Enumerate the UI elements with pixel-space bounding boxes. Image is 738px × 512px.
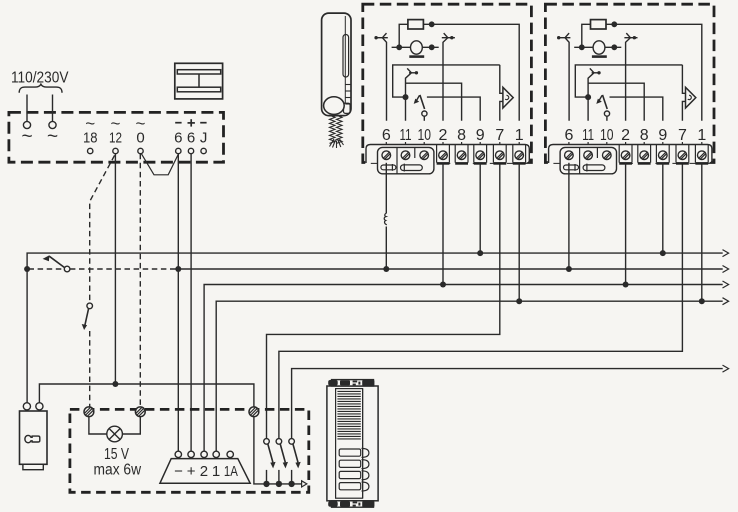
wire PSU 12 dashed diagonal and vertical (to lamp switch) bbox=[90, 155, 115, 303]
polarity marks - + - above 6 6 J bbox=[175, 119, 206, 126]
resistor bbox=[399, 24, 408, 47]
panel bottom cap screws bbox=[328, 501, 374, 507]
junction dot PSU6a on bus 2 bbox=[175, 266, 181, 272]
terminal ~ right bbox=[49, 121, 56, 128]
door entry panel bbox=[327, 380, 378, 508]
arrow push button common bbox=[302, 481, 307, 487]
screw cells t2 t8 t9 t7 t1 bbox=[619, 145, 708, 163]
amplifier triangle and terminal 7 wire bbox=[500, 65, 503, 93]
push button 1 bbox=[263, 439, 275, 487]
arrow bus 5 bbox=[723, 365, 729, 372]
wire PSU 6a down to door speaker minus bbox=[177, 154, 179, 451]
svg-text:2: 2 bbox=[200, 463, 208, 480]
buzzer bbox=[411, 41, 423, 54]
arrow bus 1 bbox=[723, 250, 729, 257]
bus line 5 (push button 3 spare, arrow right) bbox=[292, 369, 723, 439]
screw cells t2 t8 t9 t7 t1 bbox=[437, 145, 526, 163]
bus line 4 (left bend down to door speaker 1) bbox=[216, 301, 723, 451]
door station box bbox=[70, 409, 309, 492]
svg-text:J: J bbox=[200, 129, 208, 146]
wire resistor to terminal 1 bbox=[606, 24, 702, 121]
svg-text:2: 2 bbox=[439, 127, 448, 144]
arrow bus 2 bbox=[723, 266, 729, 273]
door speaker unit trapezoid bbox=[160, 459, 250, 484]
svg-text:9: 9 bbox=[658, 127, 667, 144]
wire unit1 t1 to bus4 bbox=[518, 163, 520, 301]
wire PSU 6b down to door speaker plus bbox=[190, 154, 192, 451]
wire switch to terminal 9 bbox=[610, 97, 663, 121]
junction dot terminal 11 net bbox=[403, 94, 409, 100]
svg-text:6: 6 bbox=[564, 127, 573, 144]
connector arrow at terminal 11 bbox=[588, 68, 600, 120]
intercom unit 1 bbox=[363, 4, 532, 174]
svg-text:8: 8 bbox=[457, 127, 466, 144]
svg-text:12: 12 bbox=[109, 129, 122, 146]
handset coiled cord bbox=[330, 116, 344, 148]
intercom unit 2 bbox=[545, 4, 714, 174]
lamp wires bbox=[89, 417, 107, 434]
door speaker terminals bbox=[175, 451, 233, 457]
hook switch bbox=[603, 95, 608, 109]
wire unit2 t1 to bus4 bbox=[701, 163, 703, 301]
bus line 2 solid segment bbox=[178, 268, 723, 270]
svg-text:1: 1 bbox=[515, 127, 524, 144]
screws bbox=[382, 151, 524, 160]
jumper block over t6 t11 t10 bbox=[560, 147, 616, 173]
junction dot at resistor output bbox=[429, 21, 435, 27]
unit box 2 bbox=[545, 4, 714, 162]
power supply box PSU bbox=[9, 112, 224, 162]
wire unit1 t6 to bus2 (with slack mark) bbox=[385, 163, 387, 213]
svg-text:max 6w: max 6w bbox=[94, 462, 142, 479]
svg-text:6: 6 bbox=[187, 129, 195, 146]
switch on dashed lamp wire bbox=[87, 303, 93, 309]
screws bbox=[565, 151, 707, 160]
connector arrow at terminal 6 bbox=[376, 33, 388, 121]
wire to terminal 8 bbox=[588, 83, 644, 121]
bus line 3 (left bend down to door speaker 2) bbox=[204, 285, 723, 452]
transformer icon bbox=[175, 63, 223, 99]
wire unit2 t9 to bus1 bbox=[662, 163, 664, 253]
wire switch to terminal 9 bbox=[427, 97, 480, 121]
wire unit2 t6 to bus2 bbox=[568, 163, 570, 269]
wire mains N bbox=[52, 95, 54, 122]
lamp 15V bbox=[107, 426, 123, 442]
resistor bbox=[582, 24, 591, 47]
wire unit1 terminal7 to push button 1 bbox=[267, 163, 500, 439]
svg-text:6: 6 bbox=[382, 127, 391, 144]
terminal number labels bbox=[564, 127, 706, 144]
svg-text:110/230V: 110/230V bbox=[11, 70, 69, 87]
jumper block over t6 t11 t10 bbox=[378, 147, 434, 173]
jumper wire 0 to 6a bbox=[141, 153, 178, 174]
svg-text:11: 11 bbox=[582, 127, 594, 144]
door lock release bbox=[20, 403, 48, 470]
wire resistor to terminal 1 bbox=[423, 24, 519, 121]
svg-text:0: 0 bbox=[136, 129, 144, 146]
junction dot terminal 11 net bbox=[585, 94, 591, 100]
brace under 110/230V bbox=[19, 84, 62, 93]
svg-text:15 V: 15 V bbox=[104, 446, 130, 463]
terminal strip bbox=[366, 145, 529, 163]
panel top cap screws bbox=[328, 380, 374, 386]
svg-text:+: + bbox=[187, 463, 196, 480]
terminal number labels bbox=[382, 127, 524, 144]
svg-text:1: 1 bbox=[697, 127, 706, 144]
wire to terminal 8 bbox=[406, 83, 462, 121]
wire mains L bbox=[26, 95, 28, 122]
unit box bbox=[363, 4, 532, 162]
connector arrow at terminal 2 bbox=[442, 33, 455, 121]
hook switch bbox=[420, 95, 425, 109]
terminal stubs bbox=[569, 142, 702, 149]
svg-text:10: 10 bbox=[600, 127, 614, 144]
terminal ~ left bbox=[23, 121, 30, 128]
wire unit2 t2 to bus3 bbox=[625, 163, 627, 285]
svg-text:9: 9 bbox=[476, 127, 485, 144]
buzzer bbox=[593, 41, 605, 54]
jumper links bbox=[381, 165, 396, 170]
dark cell bases bbox=[437, 162, 526, 165]
connector arrow at terminal 11 bbox=[406, 68, 418, 120]
connector arrow at terminal 2 bbox=[624, 33, 637, 121]
svg-text:7: 7 bbox=[495, 127, 504, 144]
svg-text:−: − bbox=[174, 463, 183, 480]
switch on bus 2 bbox=[64, 266, 70, 272]
bus line 1 (with left bend down to lock) bbox=[27, 253, 723, 403]
internal net wire bbox=[575, 65, 682, 97]
push button 3 bbox=[288, 439, 300, 487]
svg-text:11: 11 bbox=[400, 127, 412, 144]
panel call buttons bbox=[339, 448, 369, 491]
svg-text:2: 2 bbox=[621, 127, 630, 144]
bus line 2 dashed left segment bbox=[29, 268, 65, 270]
jumper links bbox=[564, 165, 579, 170]
terminal strip bbox=[549, 145, 712, 163]
amplifier triangle and terminal 7 wire bbox=[682, 65, 685, 93]
panel speaker grille bbox=[337, 391, 360, 439]
wire unit1 t9 to bus1 bbox=[479, 163, 481, 253]
arrow bus 4 bbox=[723, 298, 729, 305]
junction dot PSU12 wire on lock line bbox=[112, 381, 118, 387]
dark cell bases bbox=[619, 162, 708, 165]
junction dot at resistor output bbox=[611, 21, 617, 27]
svg-text:~: ~ bbox=[47, 127, 58, 148]
svg-text:7: 7 bbox=[678, 127, 687, 144]
svg-text:~: ~ bbox=[21, 127, 32, 148]
svg-text:6: 6 bbox=[174, 129, 182, 146]
svg-text:10: 10 bbox=[417, 127, 431, 144]
terminal stubs bbox=[386, 142, 519, 149]
push button 2 bbox=[276, 439, 288, 487]
wire unit2 terminal7 to push button 2 bbox=[279, 163, 683, 439]
wire PSU 12 solid down bbox=[114, 154, 116, 384]
svg-text:1: 1 bbox=[212, 463, 220, 480]
screw terminal lamp left bbox=[84, 407, 259, 417]
arrow bus 3 bbox=[723, 281, 729, 288]
wire PSU 0 dashed down bbox=[139, 154, 141, 407]
svg-text:8: 8 bbox=[640, 127, 649, 144]
wire unit1 t2 to bus3 bbox=[442, 163, 444, 285]
svg-text:18: 18 bbox=[83, 129, 98, 146]
internal net wire bbox=[393, 65, 500, 97]
connector arrow at terminal 6 bbox=[559, 33, 571, 121]
wire lock to push button common bbox=[39, 384, 303, 484]
handset bbox=[322, 13, 351, 116]
svg-text:1A: 1A bbox=[224, 463, 238, 480]
terminal circles row PSU bbox=[88, 148, 207, 153]
junction dot bus1-lock branch bbox=[24, 266, 30, 272]
